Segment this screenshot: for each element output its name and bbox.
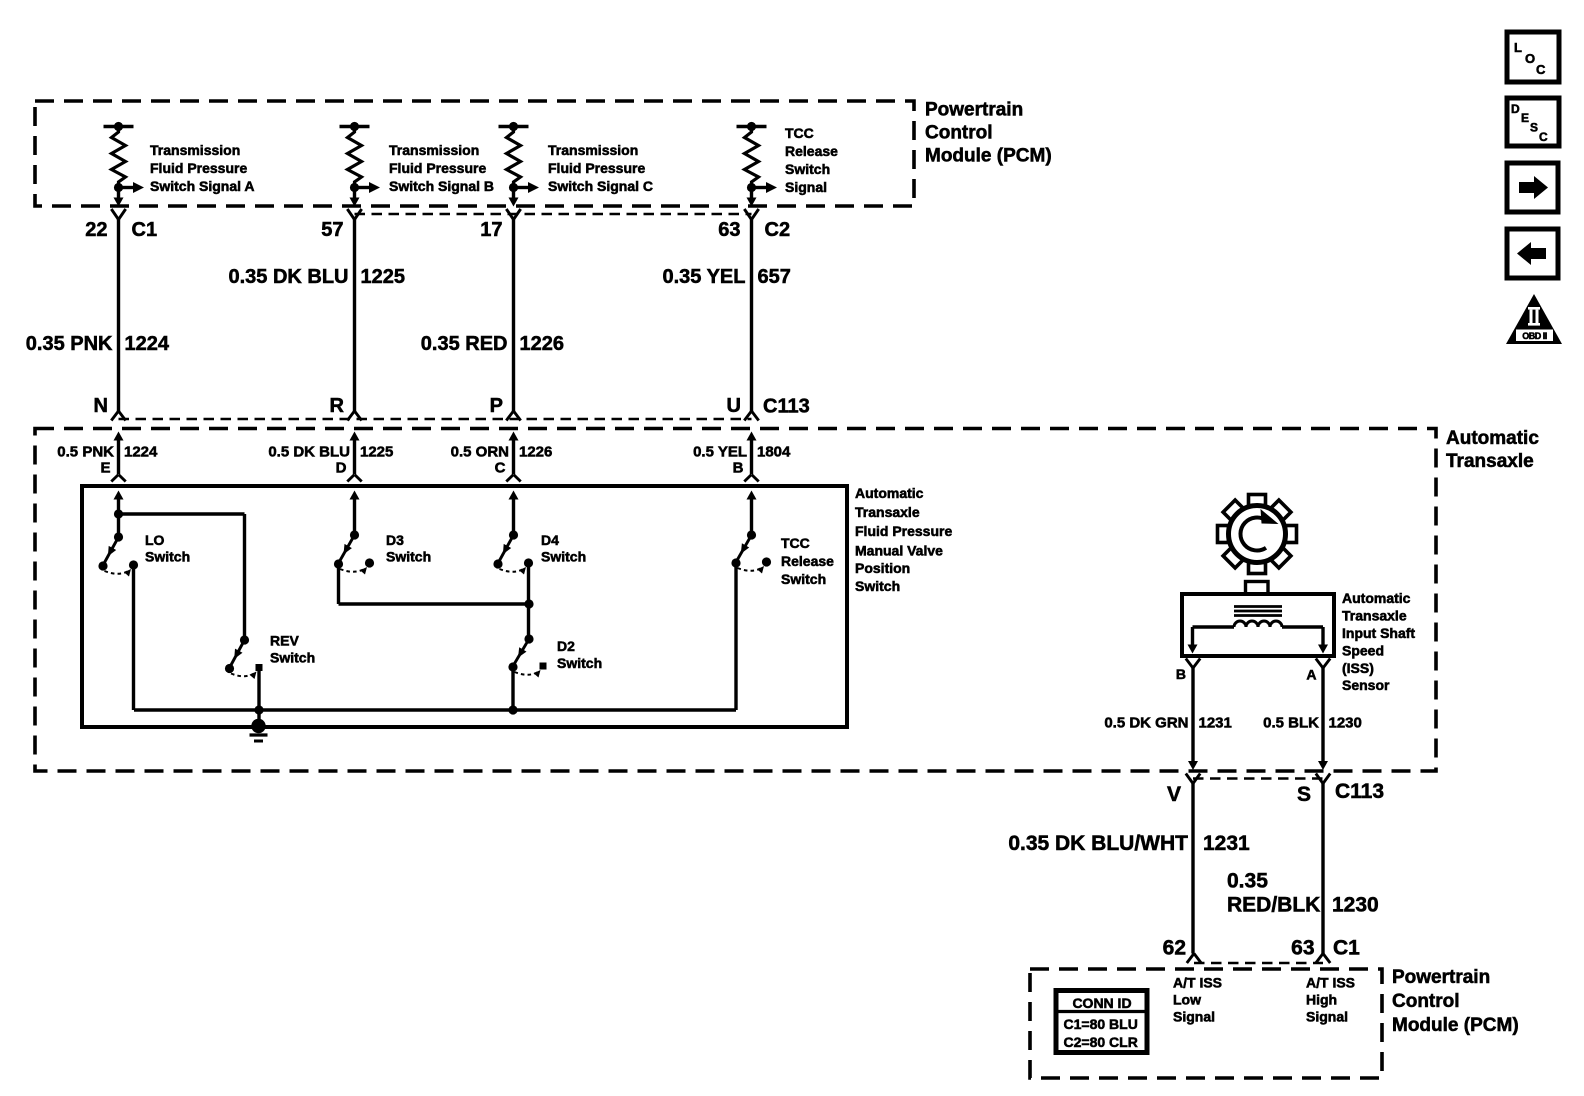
icon: DESC box <box>1507 98 1559 146</box>
label: Automatic Transaxle Input Shaft Speed (ISS) Sensor <box>1342 590 1415 693</box>
svg-text:N: N <box>94 395 108 417</box>
svg-text:0.5 ORN: 0.5 ORN <box>451 444 509 461</box>
svg-text:Transaxle: Transaxle <box>855 504 920 520</box>
wire into D3 switch <box>350 491 360 536</box>
label: TCC Release Switch Signal <box>785 125 838 195</box>
wire into D4 switch <box>509 491 519 536</box>
ISS sensor tab <box>1246 582 1269 595</box>
svg-text:63: 63 <box>1291 937 1314 960</box>
svg-text:Switch: Switch <box>855 578 900 594</box>
connector pin 62 <box>1163 937 1202 964</box>
connector C2 dashed outline (top) <box>355 213 752 216</box>
PCM bottom box (dashed) <box>1030 969 1382 1078</box>
svg-text:Automatic: Automatic <box>855 485 924 501</box>
svg-text:C2=80 CLR: C2=80 CLR <box>1064 1034 1138 1050</box>
svg-text:C113: C113 <box>763 396 810 418</box>
svg-text:1804: 1804 <box>757 444 791 461</box>
D4 switch <box>493 530 533 574</box>
svg-text:Input Shaft: Input Shaft <box>1342 625 1415 641</box>
connector C113 pin U <box>727 395 759 421</box>
svg-text:Switch: Switch <box>145 549 190 565</box>
svg-text:Switch Signal B: Switch Signal B <box>389 178 494 194</box>
label: D4 Switch <box>541 532 586 565</box>
svg-text:Fluid Pressure: Fluid Pressure <box>548 160 645 176</box>
label: 0.35 RED/BLK 1230 <box>1227 870 1379 917</box>
label: 0.35 YEL 657 <box>662 266 790 288</box>
svg-text:Control: Control <box>1392 991 1460 1012</box>
svg-text:1230: 1230 <box>1332 894 1379 917</box>
junction node (LO/REV branch) <box>114 509 123 518</box>
ISS sensor coil <box>1234 621 1282 627</box>
svg-text:Signal: Signal <box>785 179 827 195</box>
svg-text:0.5 BLK: 0.5 BLK <box>1263 715 1319 732</box>
wire entry 0.5 DK BLU 1225 into transaxle (pin D) <box>347 432 361 482</box>
wire 0.35 PNK 1224 (circuit 1224) <box>117 219 120 412</box>
ISS coil wire to pin A <box>1282 627 1328 654</box>
svg-text:LO: LO <box>145 532 165 548</box>
label: Automatic Transaxle <box>1446 428 1539 472</box>
connector C113 pin R <box>330 395 362 421</box>
svg-text:0.35: 0.35 <box>1227 870 1268 893</box>
svg-text:D: D <box>1511 102 1520 116</box>
wire LO right contact to ground bus <box>132 565 135 710</box>
connector pin 17 <box>480 209 520 241</box>
icon: LOC box <box>1507 32 1559 82</box>
svg-text:Automatic: Automatic <box>1446 428 1539 449</box>
junction node D3/D4 <box>524 599 533 608</box>
svg-text:Module (PCM): Module (PCM) <box>1392 1015 1519 1036</box>
svg-text:E: E <box>1521 111 1529 125</box>
wire to PCM pin col 1 <box>114 188 124 207</box>
svg-text:1224: 1224 <box>124 444 158 461</box>
svg-text:1226: 1226 <box>520 333 565 355</box>
connector pin 63 C1 <box>1291 937 1360 964</box>
svg-text:0.35 DK BLU: 0.35 DK BLU <box>228 266 348 288</box>
svg-text:0.35 RED: 0.35 RED <box>421 333 508 355</box>
label: 0.5 DK GRN 1231 <box>1104 715 1232 732</box>
svg-text:Control: Control <box>925 123 993 144</box>
label: 0.5 PNK 1224 pin E <box>57 444 158 477</box>
label: Transmission Fluid Pressure Switch Signal A <box>150 142 255 194</box>
wire 0.35 RED 1226 (circuit 1226) <box>512 219 515 412</box>
svg-text:C1: C1 <box>132 219 158 241</box>
label: LO Switch <box>145 532 190 565</box>
label: C113 (top) <box>763 396 810 418</box>
CONN ID table <box>1056 991 1147 1053</box>
svg-text:1231: 1231 <box>1199 715 1232 732</box>
svg-text:62: 62 <box>1163 937 1186 960</box>
signal arrow (internal) col 4 <box>752 182 778 193</box>
svg-text:(ISS): (ISS) <box>1342 660 1374 676</box>
svg-text:1225: 1225 <box>361 266 406 288</box>
svg-text:Switch: Switch <box>541 549 586 565</box>
svg-text:Switch Signal A: Switch Signal A <box>150 178 255 194</box>
signal arrow (internal) col 2 <box>355 182 381 193</box>
svg-text:Sensor: Sensor <box>1342 677 1390 693</box>
PCM top box (dashed) <box>35 101 914 206</box>
svg-text:Manual Valve: Manual Valve <box>855 543 943 559</box>
svg-text:Switch: Switch <box>557 655 602 671</box>
wire 0.5 BLK 1230 <box>1318 668 1328 770</box>
label: Powertrain Control Module (PCM) bottom <box>1392 967 1519 1036</box>
label: C113 (bottom) <box>1335 780 1384 803</box>
wire into TCC release switch <box>747 491 757 536</box>
wire D2 left contact to ground bus <box>511 667 514 710</box>
D2 switch <box>508 634 546 677</box>
resistor pull-up resistor (TFP switch signal C) <box>499 122 529 192</box>
label: 0.35 RED 1226 <box>421 333 564 355</box>
LO switch <box>98 532 138 576</box>
wire D3 left contact to D4 net <box>339 564 530 604</box>
rotation arrow (clockwise) <box>1240 509 1278 550</box>
svg-text:S: S <box>1297 783 1311 806</box>
svg-text:A/T ISS: A/T ISS <box>1306 975 1355 991</box>
svg-text:C: C <box>1536 62 1546 77</box>
label: Transmission Fluid Pressure Switch Signal B <box>389 142 494 194</box>
connector pin 57 <box>321 209 361 241</box>
svg-text:Switch Signal C: Switch Signal C <box>548 178 653 194</box>
label: 0.35 DK BLU 1225 <box>228 266 405 288</box>
svg-text:0.5 DK BLU: 0.5 DK BLU <box>268 444 350 461</box>
ISS reluctor gear ring <box>1229 506 1286 563</box>
svg-text:1230: 1230 <box>1329 715 1362 732</box>
label: Powertrain Control Module (PCM) top <box>925 100 1052 167</box>
resistor pull-up resistor (TCC release switch signal) <box>737 122 767 192</box>
ISS sensor box <box>1182 594 1334 656</box>
svg-text:D4: D4 <box>541 532 559 548</box>
connector C113 dashed outline (top section) <box>119 418 752 421</box>
resistor pull-up resistor (TFP switch signal A) <box>104 122 134 192</box>
wire into LO switch <box>114 491 124 515</box>
connector C1 dashed outline (bottom) <box>1194 962 1323 965</box>
ISS sensor pin A <box>1306 659 1330 683</box>
svg-text:C113: C113 <box>1335 780 1384 803</box>
Automatic Transaxle box (dashed) <box>35 429 1436 772</box>
svg-text:Position: Position <box>855 560 910 576</box>
svg-text:Automatic: Automatic <box>1342 590 1411 606</box>
ground <box>250 719 268 741</box>
connector C113 pin S <box>1297 774 1330 807</box>
svg-text:0.35 DK BLU/WHT: 0.35 DK BLU/WHT <box>1008 832 1188 855</box>
svg-text:V: V <box>1167 783 1181 806</box>
svg-text:Release: Release <box>785 143 838 159</box>
wire 0.35 DK BLU/WHT 1231 <box>1191 784 1194 954</box>
TCC release switch <box>731 530 771 573</box>
label: 0.5 DK BLU 1225 pin D <box>268 444 393 477</box>
svg-text:1231: 1231 <box>1203 832 1250 855</box>
svg-text:Switch: Switch <box>386 549 431 565</box>
svg-text:C2: C2 <box>765 219 791 241</box>
connector C113 pin P <box>490 395 521 421</box>
svg-text:E: E <box>100 460 110 477</box>
svg-text:A: A <box>1306 667 1316 683</box>
svg-text:Transmission: Transmission <box>548 142 638 158</box>
svg-text:Fluid Pressure: Fluid Pressure <box>389 160 486 176</box>
label: 0.35 DK BLU/WHT 1231 <box>1008 832 1250 855</box>
svg-text:U: U <box>727 395 741 417</box>
svg-text:D3: D3 <box>386 532 404 548</box>
label: 0.5 YEL 1804 pin B <box>693 444 791 477</box>
svg-text:17: 17 <box>480 219 502 241</box>
wire to PCM pin col 2 <box>350 188 360 207</box>
svg-text:Powertrain: Powertrain <box>1392 967 1490 988</box>
wire entry 0.5 PNK 1224 into transaxle (pin E) <box>111 432 125 482</box>
wire to PCM pin col 3 <box>509 188 519 207</box>
wire entry 0.5 YEL 1804 into transaxle (pin B) <box>744 432 758 482</box>
svg-text:O: O <box>1525 51 1535 66</box>
label: A/T ISS High Signal <box>1306 975 1355 1025</box>
junction node D2/bus <box>508 705 517 714</box>
svg-text:TCC: TCC <box>785 125 814 141</box>
svg-text:Signal: Signal <box>1306 1009 1348 1025</box>
svg-text:0.35 YEL: 0.35 YEL <box>662 266 745 288</box>
connector pin 22 C1 <box>85 209 157 241</box>
svg-text:C: C <box>1539 130 1548 144</box>
svg-text:Switch: Switch <box>785 161 830 177</box>
svg-text:Release: Release <box>781 553 834 569</box>
wire REV right contact to ground <box>257 668 260 727</box>
svg-text:Powertrain: Powertrain <box>925 100 1023 121</box>
wire junction to LO pivot <box>117 514 120 537</box>
svg-text:TCC: TCC <box>781 535 810 551</box>
svg-text:Transmission: Transmission <box>389 142 479 158</box>
label: Automatic Transaxle Fluid Pressure Manual Valve Position Switch <box>855 485 952 594</box>
svg-text:0.5 YEL: 0.5 YEL <box>693 444 747 461</box>
svg-text:Module (PCM): Module (PCM) <box>925 146 1052 167</box>
icon: back arrow box <box>1507 229 1558 278</box>
label: D3 Switch <box>386 532 431 565</box>
svg-text:P: P <box>490 395 503 417</box>
svg-text:63: 63 <box>718 219 740 241</box>
svg-text:657: 657 <box>758 266 791 288</box>
svg-text:RED/BLK: RED/BLK <box>1227 894 1320 917</box>
wire D4 right contact down to D2 <box>527 563 530 639</box>
svg-text:Transaxle: Transaxle <box>1446 451 1534 472</box>
svg-text:Fluid Pressure: Fluid Pressure <box>150 160 247 176</box>
wire branch to REV switch <box>119 514 245 640</box>
svg-text:Low: Low <box>1173 992 1201 1008</box>
svg-text:Transmission: Transmission <box>150 142 240 158</box>
svg-text:57: 57 <box>321 219 343 241</box>
TFP manual valve position switch box <box>82 486 847 727</box>
svg-text:High: High <box>1306 992 1337 1008</box>
label: 0.35 PNK 1224 <box>26 333 170 355</box>
ground bus wire <box>134 708 736 711</box>
svg-text:R: R <box>330 395 345 417</box>
label: 0.5 ORN 1226 pin C <box>451 444 553 477</box>
svg-text:Switch: Switch <box>781 571 826 587</box>
svg-text:A/T ISS: A/T ISS <box>1173 975 1222 991</box>
svg-text:D2: D2 <box>557 638 575 654</box>
resistor pull-up resistor (TFP switch signal B) <box>340 122 370 192</box>
svg-text:0.5 PNK: 0.5 PNK <box>57 444 114 461</box>
wire 0.35 RED/BLK 1230 <box>1321 784 1324 954</box>
D3 switch <box>334 530 374 574</box>
connector C113 dashed outline (bottom section) <box>1193 777 1323 780</box>
label: 0.5 BLK 1230 <box>1263 715 1362 732</box>
icon: forward arrow box <box>1507 163 1558 212</box>
svg-text:S: S <box>1530 121 1538 135</box>
svg-text:Speed: Speed <box>1342 643 1384 659</box>
svg-text:C1=80 BLU: C1=80 BLU <box>1064 1016 1138 1032</box>
svg-text:Signal: Signal <box>1173 1009 1215 1025</box>
svg-text:B: B <box>1176 666 1186 682</box>
signal arrow (internal) col 3 <box>514 182 540 193</box>
svg-text:C1: C1 <box>1333 937 1360 960</box>
connector C113 pin V <box>1167 774 1200 807</box>
wire entry 0.5 ORN 1226 into transaxle (pin C) <box>506 432 520 482</box>
wire 0.35 DK BLU 1225 (circuit 1225) <box>353 219 356 412</box>
ISS coil wire to pin B <box>1188 627 1235 654</box>
wire to PCM pin col 4 <box>747 188 757 207</box>
connector C113 pin N <box>94 395 126 421</box>
svg-text:1226: 1226 <box>519 444 552 461</box>
svg-text:C: C <box>495 460 506 477</box>
svg-text:Switch: Switch <box>270 650 315 666</box>
svg-text:0.5 DK GRN: 0.5 DK GRN <box>1104 715 1188 732</box>
label: Transmission Fluid Pressure Switch Signal C <box>548 142 653 194</box>
label: REV Switch <box>270 633 315 666</box>
wire TCC left contact to ground bus <box>734 563 737 710</box>
label: TCC Release Switch <box>781 535 834 587</box>
svg-text:Fluid Pressure: Fluid Pressure <box>855 523 952 539</box>
ISS reluctor gear teeth <box>1218 495 1297 574</box>
svg-text:OBD II: OBD II <box>1522 331 1547 341</box>
svg-text:Transaxle: Transaxle <box>1342 608 1407 624</box>
ISS sensor pin B <box>1176 659 1200 683</box>
svg-text:D: D <box>336 460 347 477</box>
REV switch <box>225 635 263 679</box>
ISS sensor core <box>1234 607 1282 616</box>
svg-text:22: 22 <box>85 219 107 241</box>
svg-text:REV: REV <box>270 633 299 649</box>
icon: OBD II triangle <box>1506 294 1562 344</box>
svg-text:1225: 1225 <box>360 444 393 461</box>
wire 0.35 YEL 657 (circuit 657) <box>750 219 753 412</box>
svg-text:1224: 1224 <box>125 333 170 355</box>
svg-text:CONN ID: CONN ID <box>1072 995 1131 1011</box>
connector pin 63 C2 <box>718 209 790 241</box>
label: D2 Switch <box>557 638 602 671</box>
signal arrow (internal) col 1 <box>119 182 145 193</box>
label: A/T ISS Low Signal <box>1173 975 1222 1025</box>
svg-text:0.35 PNK: 0.35 PNK <box>26 333 113 355</box>
svg-text:B: B <box>733 460 744 477</box>
wire 0.5 DK GRN 1231 <box>1188 668 1198 770</box>
junction node REV/bus <box>254 705 263 714</box>
svg-text:L: L <box>1514 40 1522 55</box>
